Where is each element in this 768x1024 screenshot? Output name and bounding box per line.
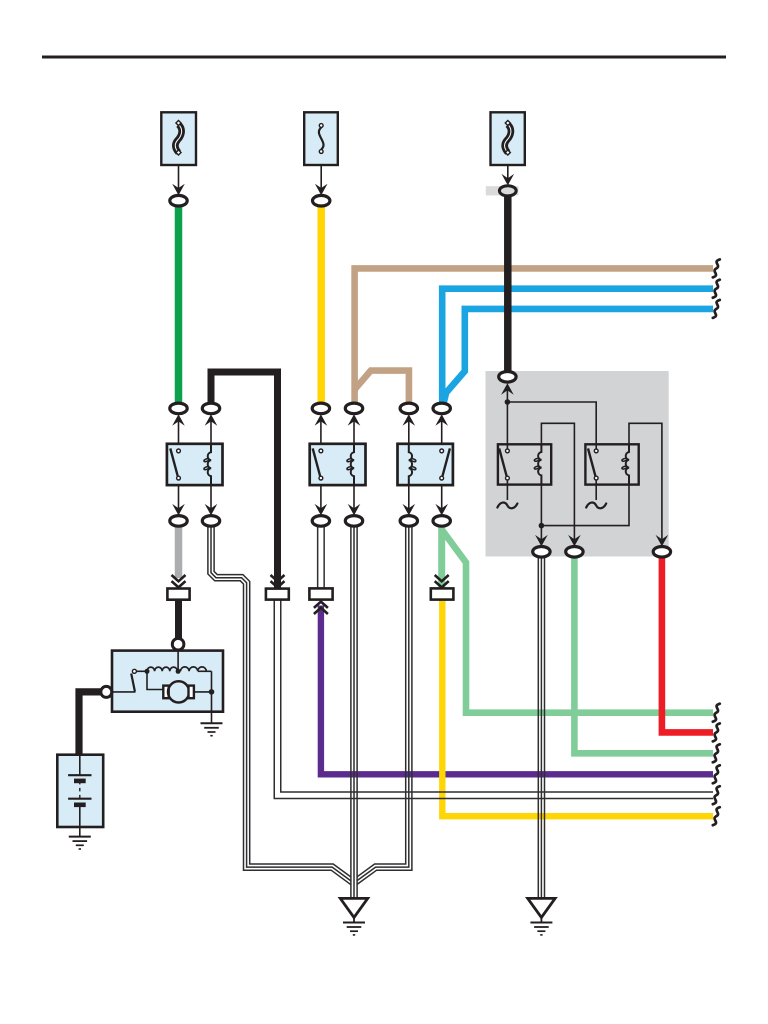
- wire from junction to relay RB switch: [507, 402, 596, 451]
- ground G1 triangle: [340, 898, 367, 935]
- lead with arrow from FL2 to connector: [502, 165, 515, 185]
- wire white 2-line from rect2 to right continuation: [274, 600, 713, 799]
- starter assembly top connector circle: [172, 638, 184, 650]
- relay R2 leads and top connectors: [312, 403, 363, 444]
- lead from RA switch to wavy terminator: [497, 480, 517, 508]
- starter assembly box: [112, 651, 223, 712]
- connector rect4 green-to-yellow: [431, 588, 454, 599]
- battery box: [57, 755, 103, 827]
- wire light-green branch from relay3 to right continuation: [443, 531, 713, 713]
- lead to left output connector of relay block: [535, 526, 548, 547]
- lead with up arrow below relay block connector: [501, 383, 514, 402]
- starter internal: motor: [163, 671, 211, 702]
- wire white 3-line from relay block to ground G2: [538, 557, 544, 899]
- wire blue inner from right continuation to relay3 switch: [444, 309, 713, 403]
- relay block output connector left: [533, 547, 550, 558]
- continuation squiggle light-green wire 2: [713, 744, 720, 762]
- lead with arrow from F1 to connector: [315, 165, 328, 195]
- wire light-green from relay3 to rect4: [438, 526, 445, 587]
- relay R1 leads and top connectors: [170, 403, 220, 444]
- starter internal: hold-in and pull-in coils: [137, 667, 207, 674]
- connector ellipse below FL2: [499, 186, 516, 196]
- wire white 3-line from relay1 coil to ground G1 (left branch): [208, 526, 351, 885]
- chevron arrow up into rect3: [314, 602, 328, 614]
- wire blue outer from right continuation to relay3 switch: [442, 289, 713, 404]
- wire yellow from fuse box2 to relay2 switch: [317, 206, 325, 404]
- relay block output connector right: [653, 547, 670, 558]
- ground G2 triangle: [528, 898, 555, 935]
- starter internal: lead from top connector to coil junction: [177, 650, 179, 671]
- lead with arrow from FL1 to connector: [172, 165, 185, 195]
- chevron arrow into rect4: [435, 575, 449, 587]
- starter internal: junction dot right: [209, 671, 215, 722]
- continuation squiggle purple wire: [713, 765, 720, 783]
- wire black from fusible-link box3 to relay block connector: [504, 196, 512, 373]
- wire purple from rect3 to right continuation: [321, 606, 713, 775]
- relay R3 box: [398, 444, 453, 485]
- gray highlight band behind FL2 connector: [486, 186, 519, 195]
- top rule: [42, 56, 726, 59]
- wire white 3-line from relay2 coil to ground G1 (stem): [351, 526, 357, 899]
- wire from relay RA coil top to middle output: [541, 423, 574, 541]
- chevron arrow into rect2: [271, 575, 285, 587]
- connector rect2 black-to-white: [266, 589, 289, 600]
- continuation squiggle tan wire: [713, 259, 720, 277]
- wire green from fusible-link box1 to relay1 switch: [175, 206, 183, 404]
- connector rect1 gray-to-black: [167, 589, 189, 600]
- battery symbol: [68, 755, 91, 827]
- wire light-green from relay block to right continuation: [574, 557, 713, 754]
- starter case ground: [201, 723, 223, 735]
- relay R2 box: [310, 444, 366, 485]
- wire black from rect1 to starter assembly: [175, 600, 182, 639]
- wire linking RA coil bottom and RB coil bottom: [541, 484, 629, 525]
- relay block background panel: [486, 371, 669, 557]
- connector ellipse below FL1: [170, 195, 187, 206]
- relay R1 box: [167, 444, 223, 485]
- relay R3 bottom leads and connectors: [400, 485, 450, 526]
- arrow into middle output connector: [568, 535, 581, 547]
- relay RA box: [498, 444, 551, 485]
- wire black loop from relay1 coil to connector rect2: [211, 372, 278, 588]
- starter internal: ignition switch: [106, 669, 136, 692]
- wire tan from right continuation to relay2 coil and relay3 coil: [355, 268, 713, 403]
- continuation squiggle yellow wire: [713, 807, 720, 825]
- wire gray from relay1 switch to connector rect1: [175, 526, 183, 578]
- starter internal: link from coil junction to motor brush: [147, 673, 163, 690]
- fusible link box FL2: [491, 112, 525, 165]
- continuation squiggle blue wire 2: [713, 300, 720, 318]
- relay R1 bottom leads and connectors: [170, 485, 220, 526]
- arrow into red output connector: [656, 535, 669, 547]
- continuation squiggle blue wire 1: [713, 280, 720, 298]
- connector rect3 white-to-purple: [309, 588, 332, 599]
- wire black from starter to battery: [79, 692, 102, 755]
- relay block top connector ellipse: [499, 372, 516, 383]
- starter left connector circle: [101, 686, 112, 697]
- wire yellow from rect4 to right continuation: [442, 600, 713, 817]
- connector ellipse below F1: [313, 195, 330, 206]
- wire red from relay block to right continuation: [662, 557, 713, 733]
- fusible link box FL1: [161, 112, 196, 165]
- continuation squiggle white wire: [713, 786, 720, 804]
- junction node in relay block: [505, 399, 511, 405]
- lead from RB switch to wavy terminator: [586, 480, 606, 508]
- wire white 2-line from relay2 switch to rect3: [318, 526, 325, 588]
- chevron arrow into rect1: [172, 575, 186, 587]
- wire white 3-line from relay3 coil to ground G1 (right branch): [357, 526, 412, 884]
- wire from relay RB coil top to red output: [629, 423, 662, 541]
- junction node coil bottoms: [539, 523, 545, 529]
- relay R2 bottom leads and connectors: [312, 485, 363, 526]
- continuation squiggle light-green wire 1: [713, 704, 720, 722]
- relay R3 leads and top connectors: [400, 403, 450, 444]
- continuation squiggle red wire: [713, 723, 720, 741]
- battery ground: [69, 827, 91, 849]
- relay RB box: [585, 444, 638, 485]
- fuse box F1: [304, 112, 338, 165]
- relay block output connector middle: [566, 547, 583, 558]
- wire from junction to relay RA switch: [506, 402, 508, 451]
